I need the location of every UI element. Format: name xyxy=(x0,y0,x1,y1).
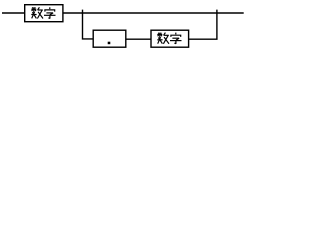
label . in dot box xyxy=(108,42,111,45)
box 数字 (digits) top xyxy=(25,5,63,22)
box . (decimal point) xyxy=(93,30,126,47)
wire entry line xyxy=(2,12,25,14)
wire between dot box and digits box xyxy=(126,38,152,40)
wire main line after box xyxy=(63,12,244,14)
label 数字 in top box xyxy=(31,7,55,18)
wire branch down to fraction path xyxy=(83,10,94,39)
label 数字 in bottom box xyxy=(157,33,181,44)
wire after bottom digits box, rejoin main line xyxy=(188,10,217,40)
box 数字 (digits) bottom xyxy=(151,30,189,47)
